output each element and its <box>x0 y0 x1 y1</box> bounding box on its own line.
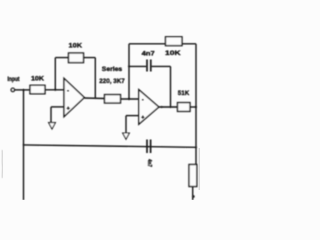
left edge scan artifact <box>1 150 4 178</box>
wire below R6 <box>192 187 194 201</box>
wire feedback left vertical <box>54 58 56 90</box>
resistor R3 series box <box>105 95 121 103</box>
wire U1 output <box>84 97 105 100</box>
svg-text:-: - <box>67 88 69 94</box>
capacitor C2 4n7 plates <box>146 140 148 154</box>
wire R1 to op-amp U1 <box>45 89 64 91</box>
wire feedback top <box>55 57 95 59</box>
wire U2 plus input <box>126 115 139 117</box>
wire left vertical rail <box>23 90 25 200</box>
resistor R5 51K box <box>178 103 191 112</box>
svg-text:+: + <box>67 106 70 112</box>
node feedback junction A <box>54 89 56 91</box>
node U2 output dot <box>161 106 163 108</box>
wire U2 feedback top <box>129 43 196 45</box>
wire input to R1 <box>15 89 31 91</box>
wire R5 to right rail <box>190 106 196 108</box>
wire capacitor C1 right lead <box>152 65 171 67</box>
svg-text:10K: 10K <box>69 42 83 49</box>
svg-text:4n7: 4n7 <box>146 159 152 167</box>
op-amp U2 <box>139 90 159 125</box>
node right rail top junction <box>195 106 197 108</box>
resistor R4 10K feedback box <box>166 37 183 46</box>
resistor R1 10K input box <box>30 85 45 94</box>
wire ground 1 vertical <box>50 107 52 123</box>
svg-text:10K: 10K <box>165 50 181 57</box>
wire right vertical rail <box>195 44 197 165</box>
svg-text:220, 3K7: 220, 3K7 <box>99 78 125 85</box>
svg-text:Input: Input <box>8 77 20 83</box>
svg-text:10K: 10K <box>31 75 44 82</box>
svg-text:51K: 51K <box>178 90 190 97</box>
wire C1 right vertical <box>170 66 172 107</box>
resistor R2 10K feedback box <box>69 53 84 63</box>
node bottom right junction <box>195 146 197 148</box>
op-amp U1 <box>64 78 84 116</box>
wire U2 output <box>159 106 178 108</box>
node bottom right blob <box>192 195 195 198</box>
node input junction <box>22 89 24 91</box>
wire U1 plus input <box>51 106 64 108</box>
svg-text:4n7: 4n7 <box>142 51 155 58</box>
node U2 inverting junction <box>128 98 130 100</box>
node U1 output junction <box>94 97 96 99</box>
svg-text:-: - <box>142 97 144 103</box>
wire bottom rail <box>24 145 197 147</box>
wire ground 2 vertical <box>125 116 127 133</box>
input terminal circle <box>11 88 14 91</box>
right edge faint line <box>198 148 200 190</box>
wire R3 to op-amp U2 <box>121 98 139 100</box>
capacitor C1 4n7 plates <box>146 60 148 72</box>
node C1 output junction <box>169 106 171 108</box>
wire feedback right vertical <box>94 58 96 98</box>
svg-text:+: + <box>141 115 144 121</box>
ground 1 <box>49 123 56 129</box>
node capacitor branch junction <box>128 65 130 67</box>
ground 2 <box>123 133 130 139</box>
resistor R6 vertical box <box>189 165 197 187</box>
node bottom left junction <box>23 144 25 146</box>
wire capacitor C1 left lead <box>129 65 146 67</box>
svg-text:Series: Series <box>102 66 123 73</box>
wire U2 feedback left vertical <box>128 44 130 99</box>
